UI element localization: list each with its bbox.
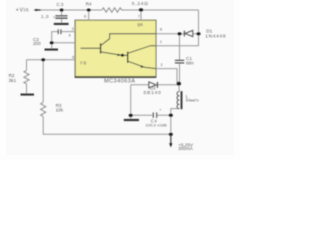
svg-text:1: 1 bbox=[160, 39, 162, 44]
svg-text:50мкГн: 50мкГн bbox=[186, 97, 199, 102]
svg-text:68n: 68n bbox=[186, 60, 194, 65]
svg-text:5: 5 bbox=[72, 55, 74, 60]
svg-text:D1: D1 bbox=[206, 29, 212, 34]
svg-text:2: 2 bbox=[161, 62, 163, 67]
svg-text:3: 3 bbox=[72, 26, 74, 31]
svg-text:10k: 10k bbox=[56, 108, 64, 113]
svg-text:Ipk: Ipk bbox=[137, 22, 143, 27]
svg-text:FB: FB bbox=[80, 60, 87, 65]
svg-text:7: 7 bbox=[138, 13, 140, 18]
svg-text:300mA: 300mA bbox=[178, 146, 193, 151]
svg-text:0,24Ω: 0,24Ω bbox=[132, 1, 149, 7]
svg-text:SB140: SB140 bbox=[143, 90, 161, 96]
svg-text:200: 200 bbox=[33, 41, 41, 46]
svg-text:+Vin: +Vin bbox=[16, 8, 30, 14]
svg-text:MC34063A: MC34063A bbox=[104, 79, 135, 85]
svg-text:3k1: 3k1 bbox=[9, 78, 17, 83]
svg-text:1,0: 1,0 bbox=[41, 14, 49, 19]
svg-text:C3: C3 bbox=[57, 2, 65, 7]
svg-text:100,0 x16B: 100,0 x16B bbox=[145, 123, 167, 128]
svg-text:D2: D2 bbox=[150, 86, 156, 91]
svg-text:1N4448: 1N4448 bbox=[205, 33, 226, 39]
svg-text:8: 8 bbox=[160, 27, 162, 32]
svg-text:R4: R4 bbox=[86, 2, 92, 7]
svg-text:6: 6 bbox=[84, 14, 86, 19]
